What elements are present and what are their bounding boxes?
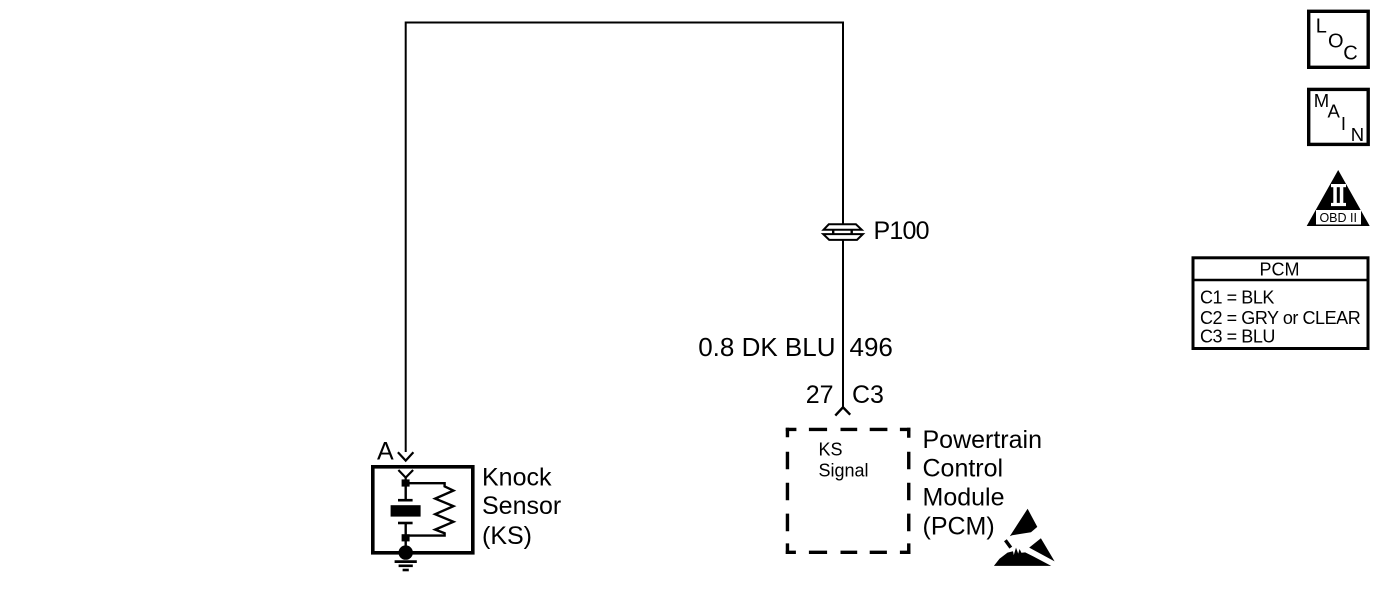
svg-text:Knock: Knock [482,464,552,492]
svg-text:L: L [1316,16,1327,38]
svg-text:Module: Module [923,484,1005,512]
svg-text:27: 27 [806,381,834,409]
svg-text:I: I [1341,113,1346,134]
svg-text:496: 496 [850,332,893,362]
svg-text:KS: KS [819,439,843,459]
svg-text:Sensor: Sensor [482,492,561,520]
svg-text:C1 = BLK: C1 = BLK [1200,287,1274,307]
svg-text:C3 = BLU: C3 = BLU [1200,327,1275,347]
svg-text:A: A [1328,101,1341,122]
svg-text:(PCM): (PCM) [923,513,995,541]
svg-text:OBD II: OBD II [1319,211,1357,225]
svg-text:P100: P100 [874,217,929,245]
svg-text:N: N [1351,124,1364,145]
svg-text:O: O [1328,30,1344,52]
svg-text:Powertrain: Powertrain [923,426,1043,454]
svg-text:C2 = GRY or CLEAR: C2 = GRY or CLEAR [1200,308,1361,328]
svg-text:C: C [1343,42,1357,64]
svg-text:0.8 DK BLU: 0.8 DK BLU [698,332,835,362]
svg-text:Control: Control [923,455,1004,483]
svg-text:Signal: Signal [819,460,869,480]
svg-text:PCM: PCM [1260,260,1300,280]
svg-text:A: A [377,438,394,466]
svg-text:(KS): (KS) [482,522,532,550]
svg-text:C3: C3 [852,381,884,409]
